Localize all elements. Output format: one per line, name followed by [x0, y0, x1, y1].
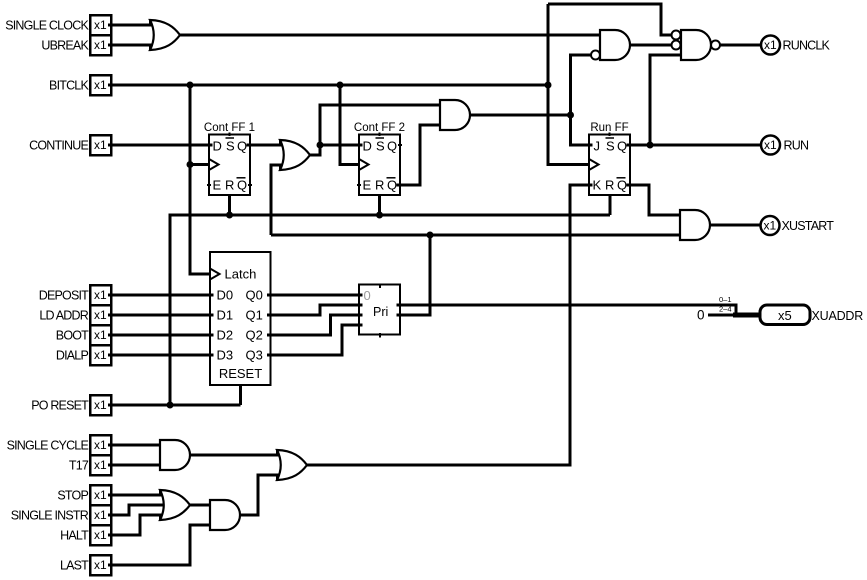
svg-text:Latch: Latch — [225, 267, 257, 282]
input STOP — [57, 485, 111, 505]
wire Latch Q2 to Pri — [268, 315, 363, 335]
and-gate AND5 (SINGLE CYCLE + T17) — [160, 440, 190, 470]
svg-text:x1: x1 — [764, 138, 777, 152]
flip-flop Cont FF 2 — [354, 122, 405, 195]
svg-text:CONTINUE: CONTINUE — [29, 139, 88, 153]
svg-text:0–1: 0–1 — [719, 295, 732, 304]
wire Run FF Q to RUN — [628, 144, 762, 147]
svg-text:HALT: HALT — [60, 529, 89, 543]
wire Pri valid output riser — [397, 235, 430, 315]
wire UBREAK to OR1 — [111, 44, 156, 47]
svg-text:Q: Q — [387, 178, 397, 193]
junction Run FF Q tee — [647, 142, 654, 149]
svg-text:RESET: RESET — [219, 366, 262, 381]
svg-text:SINGLE CLOCK: SINGLE CLOCK — [5, 19, 89, 33]
wire SINGLE INSTR to OR5 — [111, 505, 166, 515]
svg-text:E: E — [213, 178, 222, 193]
wire FF1 Q to OR2 — [247, 144, 286, 147]
svg-text:Q0: Q0 — [246, 288, 263, 303]
svg-text:S: S — [606, 139, 615, 154]
junction AND2 output tee — [567, 112, 574, 119]
output XUSTART — [761, 216, 835, 235]
svg-text:D0: D0 — [217, 288, 234, 303]
svg-text:x1: x1 — [94, 438, 107, 452]
svg-text:D: D — [363, 139, 372, 154]
junction FF2 reset stub — [376, 212, 383, 219]
wire HALT to OR5 — [111, 515, 166, 535]
wire AND4 output to XUSTART — [710, 224, 761, 227]
wire Run FF R stub — [608, 195, 611, 215]
wire AND7 output to OR6 — [240, 475, 283, 515]
output RUN — [761, 136, 809, 155]
svg-text:PO RESET: PO RESET — [31, 399, 89, 413]
input PO RESET — [31, 395, 111, 415]
svg-text:x1: x1 — [94, 138, 107, 152]
wire constant 0 — [708, 314, 736, 317]
svg-text:S: S — [226, 139, 235, 154]
wire BOOT to Latch D2 — [111, 334, 213, 337]
output XUADDR — [760, 305, 863, 325]
svg-text:R: R — [225, 178, 234, 193]
svg-text:Q1: Q1 — [246, 308, 263, 323]
svg-text:D: D — [213, 139, 222, 154]
wire CONTINUE to FF1 D — [111, 144, 212, 147]
junction node D2 — [317, 142, 324, 149]
svg-text:BOOT: BOOT — [56, 329, 89, 343]
wire node D2 to FF2 D — [320, 144, 362, 147]
junction on BITCLK at FF2 drop — [337, 82, 344, 89]
input DEPOSIT — [39, 285, 111, 305]
output RUNCLK — [761, 36, 831, 55]
input UBREAK — [41, 35, 111, 55]
svg-text:D3: D3 — [217, 348, 234, 363]
input LAST — [60, 555, 111, 575]
svg-text:RUNCLK: RUNCLK — [783, 39, 831, 53]
svg-text:BITCLK: BITCLK — [49, 79, 89, 93]
svg-text:Q3: Q3 — [246, 348, 263, 363]
svg-text:STOP: STOP — [57, 489, 88, 503]
svg-text:R: R — [605, 178, 614, 193]
svg-text:SINGLE INSTR: SINGLE INSTR — [11, 509, 89, 523]
junction Pri valid on rail — [427, 232, 434, 239]
svg-text:LAST: LAST — [60, 559, 89, 573]
junction on BITCLK at riser — [545, 82, 552, 89]
or-gate OR1 (SINGLE CLOCK + UBREAK) — [150, 19, 180, 51]
wire rail to AND4 lower input — [271, 234, 680, 237]
svg-text:D2: D2 — [217, 328, 234, 343]
or-gate OR5 (STOP + SINGLE INSTR + HALT) — [160, 489, 190, 521]
junction FF1 clock tee — [187, 161, 194, 168]
wire Run FF Q riser to NAND third input — [650, 55, 681, 145]
input BITCLK — [49, 75, 111, 95]
wire FF2 Qbar to AND2 — [397, 125, 440, 185]
wire reset rail — [170, 215, 610, 405]
svg-text:0: 0 — [364, 288, 371, 303]
svg-text:x1: x1 — [94, 78, 107, 92]
svg-text:Q: Q — [237, 178, 247, 193]
input HALT — [60, 525, 111, 545]
input LD ADDR — [39, 305, 111, 325]
junction FF1 reset stub — [226, 212, 233, 219]
wire FF2 R stub — [378, 195, 381, 215]
svg-text:x1: x1 — [94, 488, 107, 502]
svg-text:x5: x5 — [778, 308, 792, 323]
nand-gate U-RUNCLK — [672, 30, 721, 60]
wire FF1 R stub — [228, 195, 231, 215]
svg-text:x1: x1 — [94, 348, 107, 362]
wire LD ADDR to Latch D1 — [111, 314, 213, 317]
wire top rail to NAND top input — [548, 4, 671, 35]
svg-text:Run FF: Run FF — [590, 122, 628, 134]
wire BITCLK drop to FF1 clock and Latch clock — [190, 85, 210, 274]
input DIALP — [56, 345, 111, 365]
flip-flop Cont FF 1 — [204, 122, 255, 195]
junction on BITCLK at FF1 drop — [187, 82, 194, 89]
wire PO RESET to Latch RESET — [111, 404, 240, 407]
and-gate AND7 (stop group + LAST) — [210, 500, 240, 530]
wire STOP to OR5 — [111, 494, 166, 497]
svg-text:K: K — [593, 178, 602, 193]
wire Latch Q0 to Pri — [268, 294, 363, 297]
wire SINGLE CYCLE to AND5 — [111, 444, 160, 447]
wire FF1 clock branch — [190, 163, 209, 166]
svg-text:Cont FF 1: Cont FF 1 — [204, 122, 255, 134]
and-gate AND4 (XUSTART) — [680, 210, 710, 240]
input SINGLE CLOCK — [5, 15, 111, 35]
svg-text:XUSTART: XUSTART — [782, 219, 835, 233]
wire AND2 output — [470, 114, 571, 117]
svg-text:DIALP: DIALP — [56, 349, 89, 363]
wire SINGLE CLOCK to OR1 — [111, 24, 156, 27]
input CONTINUE — [29, 135, 111, 155]
wire OR2 lower input drop — [271, 165, 286, 235]
wire Latch RESET stub — [239, 385, 242, 405]
input SINGLE INSTR — [11, 505, 111, 525]
svg-text:XUADDR: XUADDR — [812, 309, 864, 323]
svg-text:UBREAK: UBREAK — [41, 39, 89, 53]
junction PO RESET tee — [167, 402, 174, 409]
wire OR6 output to Run FF K — [307, 185, 592, 465]
svg-text:D1: D1 — [217, 308, 234, 323]
svg-text:x1: x1 — [764, 38, 777, 52]
svg-text:Q: Q — [617, 139, 627, 154]
svg-text:J: J — [594, 139, 601, 154]
svg-text:Cont FF 2: Cont FF 2 — [354, 122, 405, 134]
svg-text:Q: Q — [387, 139, 397, 154]
priority encoder Pri — [359, 285, 400, 338]
wire node down to Run FF J — [571, 115, 593, 145]
or-gate OR2 (after Cont FF 1) — [280, 139, 310, 171]
wire node up to AND3 inverted input — [571, 55, 592, 115]
wire Latch Q1 to Pri — [268, 305, 363, 315]
or-gate OR6 (single-step + stop) — [277, 449, 307, 481]
svg-text:E: E — [363, 178, 372, 193]
wire BITCLK drop to FF2 clock — [340, 85, 359, 165]
wire BITCLK rail — [111, 84, 548, 87]
svg-text:DEPOSIT: DEPOSIT — [39, 289, 89, 303]
svg-text:x1: x1 — [94, 528, 107, 542]
latch Latch — [210, 252, 271, 385]
svg-text:RUN: RUN — [784, 139, 809, 153]
svg-text:x1: x1 — [94, 308, 107, 322]
wire OR1 output to AND3 — [180, 34, 600, 37]
wire Pri encoded output to bus — [397, 305, 736, 315]
and-gate AND2 (feeds Run FF J) — [440, 100, 470, 130]
svg-text:x1: x1 — [94, 508, 107, 522]
svg-text:LD ADDR: LD ADDR — [39, 309, 88, 323]
svg-text:x1: x1 — [94, 288, 107, 302]
svg-text:x1: x1 — [94, 398, 107, 412]
svg-text:x1: x1 — [764, 219, 777, 233]
svg-text:x1: x1 — [94, 38, 107, 52]
wire AND3 output to NAND — [630, 44, 671, 47]
wire NAND output to RUNCLK — [720, 44, 761, 47]
svg-text:Pri: Pri — [373, 305, 388, 319]
wire LAST to AND7 — [111, 525, 210, 565]
wire AND5 output to OR6 — [190, 454, 283, 457]
svg-text:x1: x1 — [94, 458, 107, 472]
wire T17 to AND5 — [111, 464, 160, 467]
svg-text:0: 0 — [697, 308, 705, 323]
svg-text:R: R — [375, 178, 384, 193]
svg-text:S: S — [376, 139, 385, 154]
svg-text:x1: x1 — [94, 18, 107, 32]
svg-text:x1: x1 — [94, 558, 107, 572]
input SINGLE CYCLE — [7, 435, 111, 455]
svg-text:x1: x1 — [94, 328, 107, 342]
wire BITCLK riser to top rail and Run FF clock — [548, 4, 589, 165]
input BOOT — [56, 325, 111, 345]
svg-text:Q2: Q2 — [246, 328, 263, 343]
wire DEPOSIT to Latch D0 — [111, 294, 213, 297]
svg-text:Q: Q — [617, 178, 627, 193]
flip-flop Run FF — [589, 122, 630, 195]
wire OR5 output to AND7 — [190, 504, 210, 507]
svg-text:SINGLE CYCLE: SINGLE CYCLE — [7, 439, 89, 453]
svg-text:Q: Q — [237, 139, 247, 154]
wire Latch Q3 to Pri — [268, 325, 363, 355]
bus to XUADDR — [733, 313, 760, 318]
svg-text:T17: T17 — [69, 459, 89, 473]
svg-text:2–4: 2–4 — [719, 305, 732, 314]
wire OR2 output riser — [310, 105, 440, 155]
wire DIALP to Latch D3 — [111, 354, 213, 357]
and-gate AND3 — [591, 30, 630, 60]
input T17 — [69, 455, 111, 475]
wire Run FF Qbar to AND4 — [628, 185, 681, 215]
